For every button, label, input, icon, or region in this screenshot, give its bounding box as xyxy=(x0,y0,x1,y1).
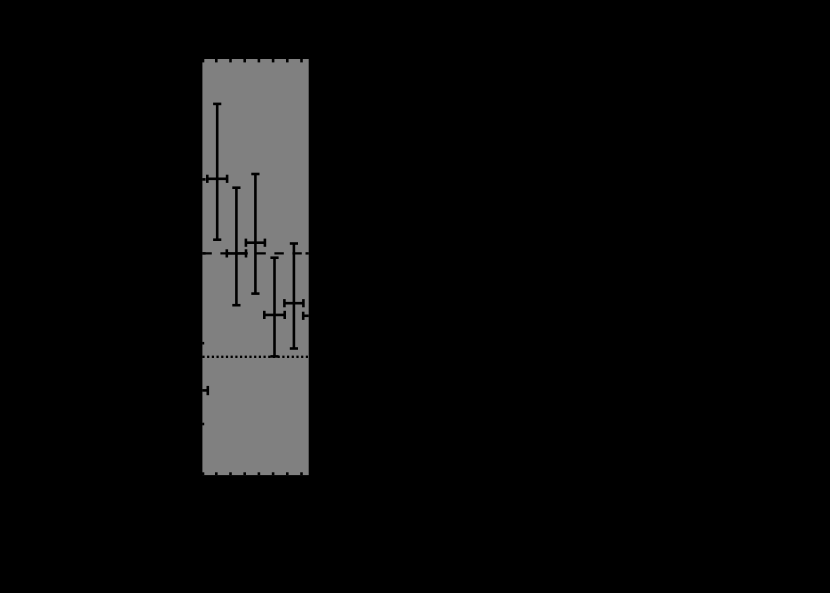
error bar point 2 xyxy=(227,188,246,306)
x-axis minor ticks, bottom spine (inward) xyxy=(203,472,302,475)
error bar point 7 (centre clipped left of panel) xyxy=(202,386,207,395)
x-axis minor ticks, top spine (inward) xyxy=(203,59,302,62)
error bar point 4 xyxy=(264,258,284,357)
error bar point 5 xyxy=(284,244,303,349)
error bar point 6 (centre clipped right of panel) xyxy=(303,312,309,320)
error bar point 1 xyxy=(207,104,227,240)
plot panel background xyxy=(202,59,308,475)
dotted horizontal reference line xyxy=(202,356,308,358)
error bar point 3 xyxy=(246,174,265,294)
y-axis minor ticks, left spine (inward, log positions) xyxy=(202,179,205,424)
dashed horizontal reference line xyxy=(202,252,308,254)
y-axis tick, right spine at dashed-line level xyxy=(306,252,309,254)
